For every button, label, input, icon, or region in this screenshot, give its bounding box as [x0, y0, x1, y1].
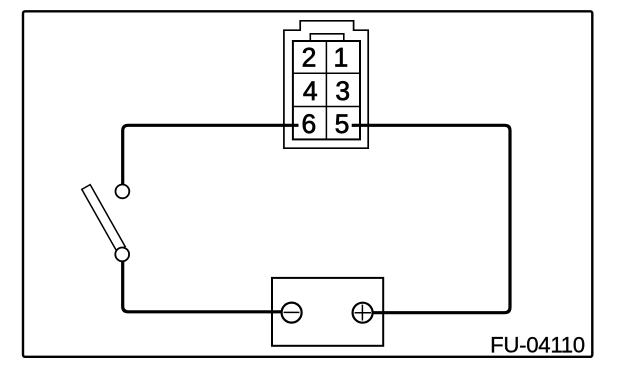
battery plus sign — [355, 312, 371, 314]
battery minus terminal — [282, 303, 302, 323]
svg-text:FU-04110: FU-04110 — [490, 332, 585, 357]
wire pin6 to switch — [123, 125, 299, 191]
connector inner tab — [310, 34, 344, 41]
battery B1 body — [272, 278, 383, 346]
svg-text:1: 1 — [334, 42, 349, 72]
wire battery plus to pin 5 — [352, 125, 510, 312]
switch lower contact — [115, 248, 129, 262]
svg-text:2: 2 — [302, 42, 317, 72]
switch upper contact — [116, 185, 130, 199]
svg-text:6: 6 — [302, 109, 317, 139]
svg-text:5: 5 — [335, 109, 350, 139]
switch SW1 lever — [82, 185, 125, 252]
grid vertical divider — [325, 41, 327, 139]
battery minus sign — [284, 311, 300, 313]
connector body outline — [284, 21, 368, 148]
battery plus terminal — [353, 303, 373, 323]
wire switch to battery minus — [123, 254, 282, 312]
svg-text:4: 4 — [303, 76, 318, 106]
grid horizontal divider 2 — [293, 106, 360, 108]
svg-text:3: 3 — [335, 76, 350, 106]
grid horizontal divider 1 — [293, 72, 360, 74]
connector pin grid — [293, 41, 360, 139]
